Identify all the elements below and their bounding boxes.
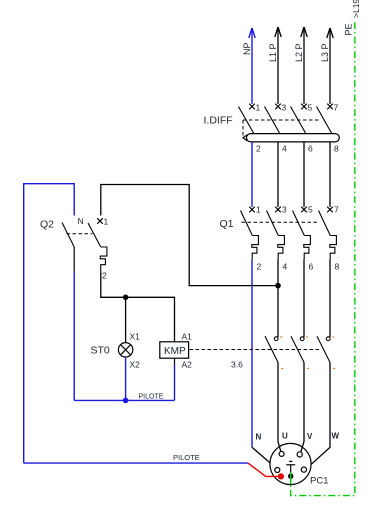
wire N diagonal into socket	[252, 447, 271, 463]
svg-text:8: 8	[334, 144, 339, 154]
svg-text:KMP: KMP	[164, 346, 186, 357]
svg-text:I.DIFF: I.DIFF	[204, 115, 233, 127]
wire L2 I.DIFF to Q1	[303, 142, 305, 207]
svg-text:2: 2	[256, 144, 261, 154]
socket PC1 body circle	[270, 443, 311, 484]
wire L1 Q1 to KMP contact	[277, 259, 279, 337]
svg-text:A1: A1	[182, 332, 193, 342]
svg-text:4: 4	[283, 262, 288, 272]
breaker Q1 pole 3 (cross, pin 5, blade, thermal element)	[293, 207, 311, 260]
socket pin lower-left	[275, 468, 280, 473]
RCD I.DIFF pole 2 (cross, pin 3, blade)	[265, 104, 281, 133]
RCD I.DIFF pole 4 (cross, pin 7, blade)	[317, 104, 333, 133]
wire NP I.DIFF to Q1 (blue)	[251, 142, 253, 207]
svg-text:L2 P: L2 P	[294, 43, 304, 62]
contactor KMP contact pole L2	[291, 336, 304, 362]
svg-text:6: 6	[309, 262, 314, 272]
net L2P supply arrow	[301, 27, 307, 104]
breaker Q1 pole 2 (cross, pin 3, blade, thermal element)	[267, 207, 285, 260]
socket pin upper-right	[297, 452, 302, 457]
breaker Q1 pole 1 (cross, pin 1, blade, thermal element)	[241, 207, 259, 260]
pilot return wire bottom (blue)	[24, 462, 248, 464]
svg-text:W: W	[332, 432, 340, 441]
socket pin lower-right	[301, 467, 306, 472]
svg-text:X2: X2	[130, 360, 141, 370]
svg-text:ST0: ST0	[91, 345, 110, 357]
junction node ST0 branch	[123, 295, 129, 301]
breaker Q2 mechanical link dashed	[67, 233, 93, 235]
wire ST0 X2 to pilot bus (blue)	[125, 357, 127, 400]
wire Q2 pole1 output down and right to KMP A1	[101, 271, 175, 342]
svg-text:6: 6	[308, 144, 313, 154]
svg-text:3: 3	[282, 205, 287, 215]
wire N Q1 to socket (blue)	[251, 259, 253, 447]
svg-text:NP: NP	[242, 42, 252, 55]
RCD test linkage dashed vertical	[242, 120, 244, 138]
svg-text:2: 2	[102, 271, 107, 281]
wire U contact to socket	[278, 362, 281, 451]
svg-text:N: N	[256, 433, 262, 442]
svg-text:1: 1	[256, 103, 261, 113]
pilot wire red segment into socket	[248, 463, 278, 476]
svg-text:1: 1	[256, 205, 261, 215]
net PE green dash-dot line	[291, 21, 355, 496]
svg-text:L1 P: L1 P	[268, 43, 278, 62]
wire V contact to socket	[301, 362, 304, 452]
svg-text:V: V	[307, 432, 313, 441]
svg-text:3: 3	[282, 103, 287, 113]
socket earth symbol	[286, 461, 295, 475]
svg-text:7: 7	[334, 103, 339, 113]
pilot connection red node	[278, 473, 284, 479]
wire junction to ST0 X1	[125, 297, 127, 342]
svg-text:4: 4	[282, 144, 287, 154]
breaker Q2 pole N (blade)	[62, 223, 74, 248]
wire KMP A2 to pilot bus	[174, 358, 176, 365]
breaker Q1 pole 4 (cross, pin 7, blade, thermal element)	[319, 207, 337, 260]
wire blue N feed to Q2	[24, 184, 74, 463]
RCD mechanical link dashed	[243, 119, 321, 121]
wire L3 I.DIFF to Q1	[329, 142, 331, 207]
svg-text:X1: X1	[130, 332, 141, 342]
svg-text:PC1: PC1	[310, 476, 328, 487]
RCD toroid sensor oval	[243, 134, 339, 142]
net NP supply arrow	[249, 28, 255, 104]
junction node pilot bus	[123, 398, 129, 404]
pilot bus wire (blue)	[74, 399, 174, 401]
svg-text:1: 1	[104, 217, 109, 227]
svg-text:PE: PE	[344, 23, 354, 35]
coil linkage dashed KMP	[190, 349, 321, 351]
svg-text:U: U	[282, 432, 288, 441]
wire Q2 N-pole output (black then blue)	[73, 247, 75, 272]
svg-text:L3 P: L3 P	[320, 43, 330, 62]
socket pin upper-left	[279, 451, 284, 456]
svg-text:PILOTE: PILOTE	[173, 453, 200, 462]
svg-text:A2: A2	[182, 360, 193, 370]
net L3P supply arrow	[327, 28, 333, 104]
contactor KMP contact pole L3	[317, 336, 330, 362]
svg-text:Q1: Q1	[220, 218, 234, 230]
wire L2 Q1 to KMP contact	[303, 259, 305, 337]
svg-text:2: 2	[257, 262, 262, 272]
terminal tick marks (orange)	[280, 336, 335, 369]
svg-text:>L19: >L19	[351, 0, 361, 18]
junction node on L1 feeding Q2	[275, 283, 281, 289]
RCD I.DIFF pole 1 (cross, pin 1, blade)	[239, 104, 255, 133]
contactor KMP contact pole L1	[265, 336, 278, 362]
contactor coil KMP	[160, 342, 189, 358]
svg-text:7: 7	[334, 205, 339, 215]
svg-text:8: 8	[335, 262, 340, 272]
svg-text:5: 5	[308, 103, 313, 113]
lamp ST0	[118, 343, 132, 357]
breaker Q1 mechanical link dashed	[242, 221, 319, 223]
green earth stub over node	[290, 473, 292, 485]
svg-text:N: N	[78, 216, 84, 226]
earth connection node	[288, 474, 293, 479]
RCD I.DIFF pole 3 (cross, pin 5, blade)	[291, 104, 307, 133]
wire L1 I.DIFF to Q1	[277, 142, 279, 207]
svg-text:PILOTE: PILOTE	[139, 393, 164, 400]
breaker Q2 pole 1 (cross, pin 1, blade, thermal element)	[88, 218, 107, 271]
svg-text:Q2: Q2	[40, 219, 54, 231]
svg-text:5: 5	[308, 205, 313, 215]
svg-text:3.6: 3.6	[231, 360, 243, 370]
wire from L1 junction to Q2 top	[101, 185, 278, 286]
net L1P supply arrow	[275, 27, 281, 104]
wire L3 Q1 to KMP contact	[329, 259, 331, 337]
wire W contact to socket	[311, 362, 330, 464]
